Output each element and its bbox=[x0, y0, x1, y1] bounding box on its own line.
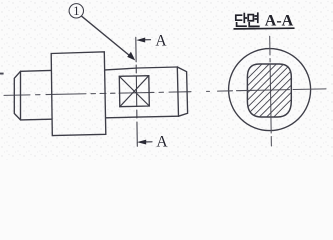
section view inner shape bbox=[247, 64, 291, 117]
keyway diagonal 1 bbox=[119, 76, 149, 106]
svg-text:A: A bbox=[155, 32, 167, 49]
small left section bottom edge bbox=[21, 118, 52, 121]
left end chamfered tip bbox=[14, 71, 20, 120]
right end junction line bbox=[177, 67, 178, 116]
bottom arrow head bbox=[137, 140, 146, 145]
small left section top edge bbox=[21, 69, 52, 72]
big block bbox=[51, 52, 106, 136]
svg-text:1: 1 bbox=[73, 4, 79, 18]
hatching of inner shape bbox=[196, 50, 333, 130]
keyway square bbox=[119, 76, 149, 107]
title: hangul 면 bbox=[248, 13, 259, 26]
third section bottom edge bbox=[106, 116, 179, 118]
scan artifact left edge bbox=[0, 73, 4, 75]
section cutting line A-A bbox=[136, 37, 138, 146]
svg-text:A: A bbox=[156, 133, 168, 150]
section view vertical centerline bbox=[270, 36, 272, 146]
keyway diagonal 2 bbox=[120, 76, 149, 107]
svg-text:A-A: A-A bbox=[265, 13, 294, 30]
leader arrow head bbox=[127, 52, 135, 61]
bottom arrow shaft bbox=[141, 141, 153, 143]
section view horizontal centerline bbox=[218, 89, 327, 91]
top arrow head bbox=[136, 38, 145, 43]
left tip junction line bbox=[20, 71, 22, 120]
right end chamfer bbox=[177, 67, 187, 116]
title: hangul 단 bbox=[236, 14, 247, 27]
centerline shaft axis bbox=[4, 91, 210, 95]
third section top edge bbox=[105, 67, 177, 70]
balloon leader line bbox=[82, 16, 133, 58]
section view outer circle bbox=[229, 49, 311, 131]
balloon circle bbox=[69, 4, 83, 18]
top arrow shaft bbox=[140, 39, 151, 41]
title underline bbox=[234, 27, 295, 30]
